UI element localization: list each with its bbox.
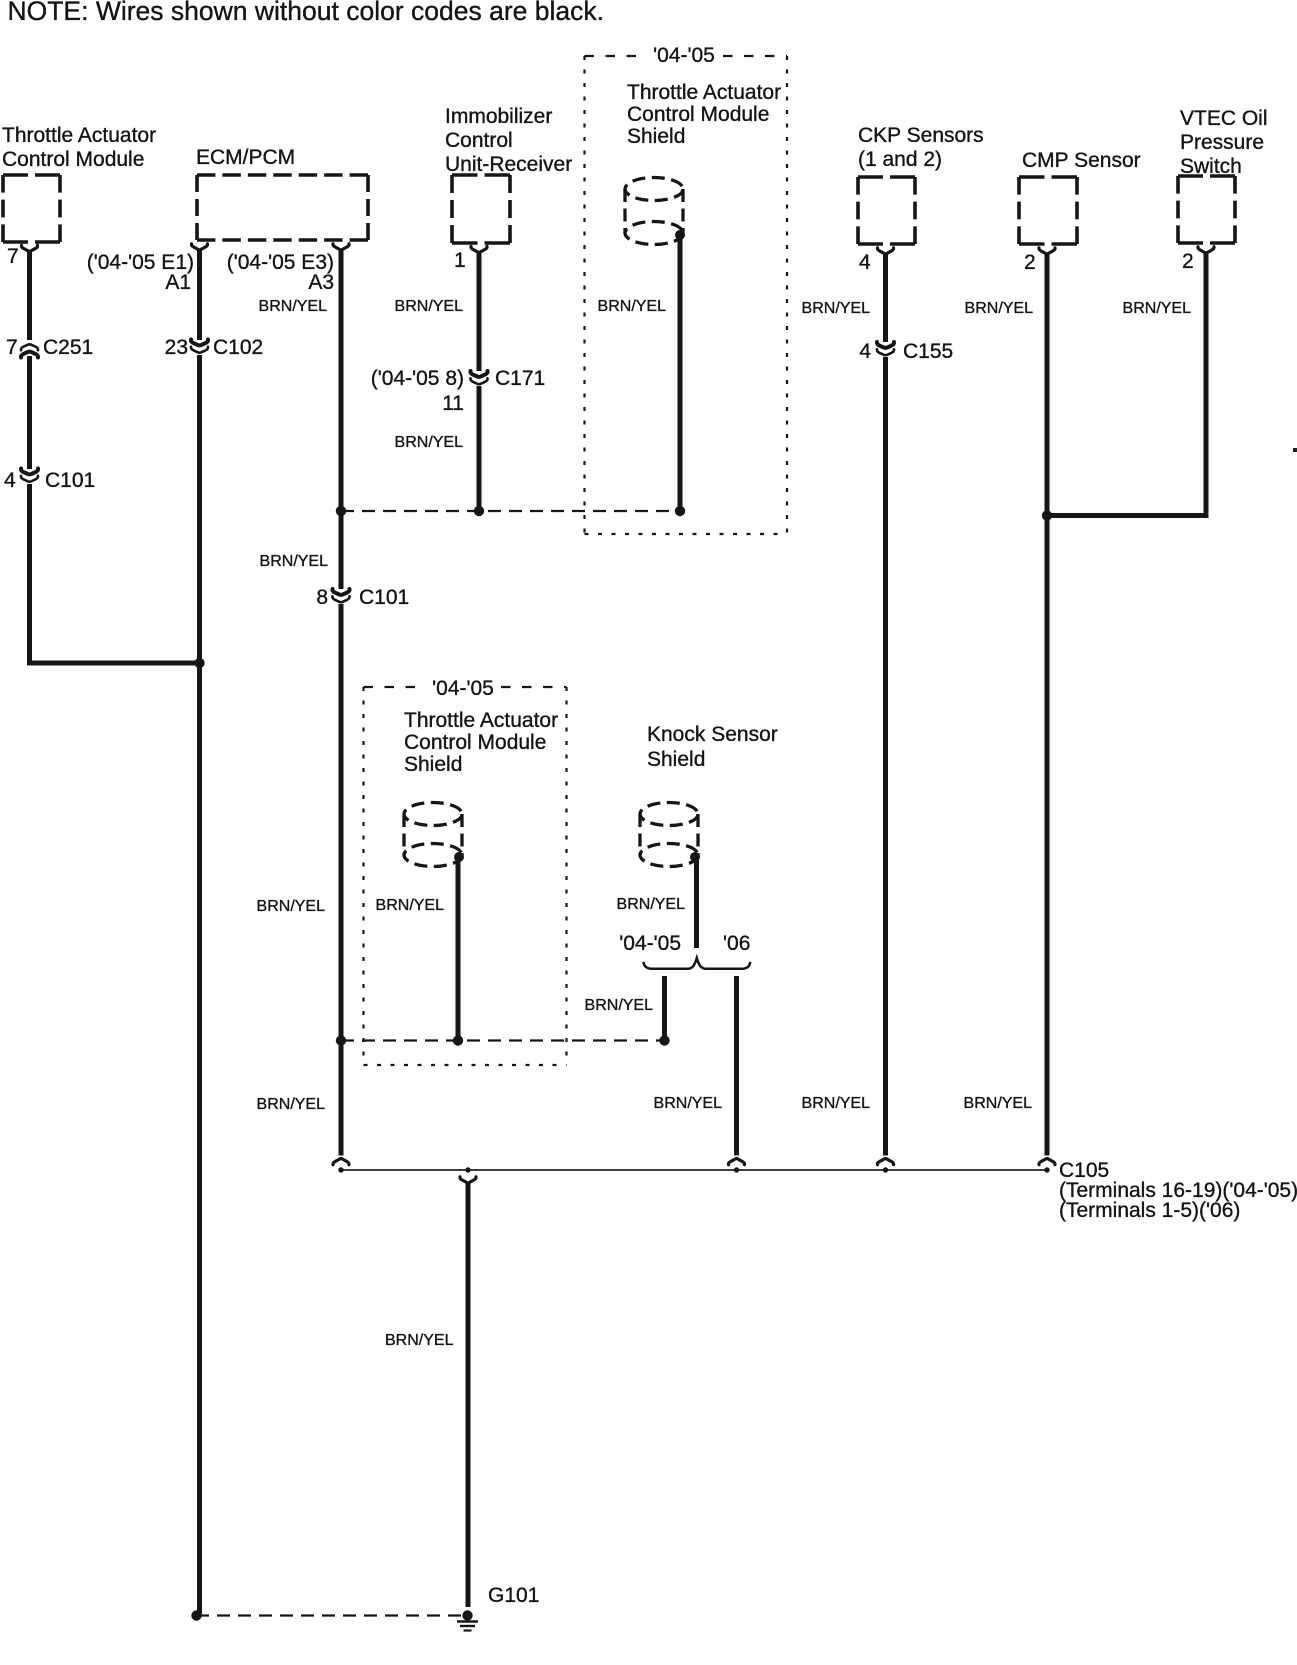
svg-text:4: 4 [859,251,871,274]
svg-text:VTEC Oil: VTEC Oil [1180,107,1268,130]
svg-text:Throttle Actuator: Throttle Actuator [2,124,156,147]
terminal pin 2 at CMP Sensor [1039,248,1055,254]
svg-text:1: 1 [454,249,466,272]
wire C155 down to bus [883,357,888,1156]
brace (knock sensor year split) [644,958,751,969]
svg-text:4: 4 [4,469,16,492]
svg-text:BRN/YEL: BRN/YEL [654,1095,723,1112]
svg-text:7: 7 [7,245,19,268]
svg-text:BRN/YEL: BRN/YEL [964,1095,1033,1112]
junction dot middle shield [453,1035,463,1045]
region box '04-'05 (top) [585,56,788,534]
svg-text:Shield: Shield [647,748,705,771]
svg-text:(1 and 2): (1 and 2) [858,148,942,171]
connector C101 (pin 8) [339,511,344,589]
component Throttle Actuator Control Module Shield (middle) [404,709,558,776]
wire top shield to junction [678,236,683,511]
component Throttle Actuator Control Module Shield (top) [627,81,781,148]
terminal at bus (A3) [333,1159,349,1165]
svg-text:C171: C171 [495,367,545,390]
svg-text:Throttle Actuator: Throttle Actuator [627,81,781,104]
component Throttle Actuator Control Module [2,124,156,242]
svg-text:Unit-Receiver: Unit-Receiver [445,153,572,176]
svg-text:'04-'05: '04-'05 [653,44,715,67]
dashed shield junction wire (middle) [341,1039,665,1041]
dashed shield junction wire (top) [341,510,680,512]
connector label C105 [1059,1159,1297,1222]
svg-text:ECM/PCM: ECM/PCM [196,146,295,169]
component Immobilizer Control Unit-Receiver [445,105,572,243]
svg-text:'04-'05: '04-'05 [619,932,681,955]
terminal at bus (CKP) [877,1159,893,1165]
svg-text:Shield: Shield [404,753,462,776]
connector C101 (pin 4) [21,469,38,482]
svg-text:A1: A1 [165,271,191,294]
svg-text:('04-'05 8): ('04-'05 8) [371,367,464,390]
svg-text:A3: A3 [308,271,334,294]
svg-text:C155: C155 [903,340,953,363]
svg-text:Shield: Shield [627,125,685,148]
svg-text:NOTE: Wires shown without colo: NOTE: Wires shown without color codes ar… [8,0,604,26]
component ECM/PCM [196,146,368,240]
terminal at bus (knock '06) [728,1159,744,1165]
svg-text:Control: Control [445,129,513,152]
junction dot A3/middle shield [336,1035,346,1045]
connector C155 [877,342,894,355]
terminal at bus (CMP) [1039,1159,1055,1165]
wire C251 to C101 [27,356,32,469]
svg-text:CMP Sensor: CMP Sensor [1022,149,1141,172]
svg-text:BRN/YEL: BRN/YEL [598,298,667,315]
bus dot A3 [338,1167,343,1172]
stray mark [1293,448,1297,452]
shield symbol (top Throttle Actuator Control Module Shield) [625,178,683,245]
connector C171 [470,371,487,384]
wire VTEC pin2 down then left to CMP wire [1204,253,1209,516]
wire knock '06 drop to bus [734,976,739,1156]
svg-text:Knock Sensor: Knock Sensor [647,723,778,746]
svg-text:2: 2 [1182,250,1194,273]
svg-text:7: 7 [6,336,18,359]
component CKP Sensors (1 and 2) [858,124,984,244]
component VTEC Oil Pressure Switch [1178,107,1268,243]
svg-text:BRN/YEL: BRN/YEL [260,553,329,570]
terminal below bus (G101 drop) [460,1177,476,1183]
shield symbol (Knock Sensor Shield) [640,803,698,867]
terminal pin 2 at VTEC Oil Pressure Switch [1198,247,1214,253]
dashed ground junction wire (bottom) [196,1614,462,1616]
svg-text:BRN/YEL: BRN/YEL [259,298,328,315]
junction dot immobilizer/shield [474,506,484,516]
svg-text:2: 2 [1024,251,1036,274]
svg-text:BRN/YEL: BRN/YEL [965,300,1034,317]
junction dot A1 at ground line [191,1610,201,1620]
svg-text:Control Module: Control Module [627,103,769,126]
wire knock '04-'05 drop to junction [662,976,667,1041]
svg-text:Control Module: Control Module [404,731,546,754]
wire ECM A3 down to shield junction [339,250,344,511]
terminal E1/A1 at ECM/PCM [191,244,207,250]
svg-text:C101: C101 [359,586,409,609]
bus dot knock '06 [734,1167,739,1172]
junction dot TACM wire joins A1 wire [194,658,204,668]
svg-text:'04-'05: '04-'05 [432,677,494,700]
terminal pin 1 at Immobilizer [471,246,487,252]
svg-text:CKP Sensors: CKP Sensors [858,124,984,147]
wire G101 drop [466,1183,471,1607]
wire TACM pin7 to C251 [27,252,32,340]
svg-text:'06: '06 [723,932,750,955]
svg-text:C101: C101 [45,469,95,492]
terminal pin 4 at CKP Sensors [877,248,893,254]
svg-text:BRN/YEL: BRN/YEL [617,896,686,913]
bus dot CMP [1044,1167,1049,1172]
junction dot knock '04-'05 [659,1035,669,1045]
svg-text:4: 4 [859,340,871,363]
bus wire C105 [339,1169,1047,1171]
wire middle shield down to junction [456,860,461,1041]
terminal pin 7 at Throttle Actuator Control Module [21,245,37,251]
ground G101 [457,1610,478,1630]
terminal E3/A3 at ECM/PCM [333,244,349,250]
svg-text:BRN/YEL: BRN/YEL [802,1095,871,1112]
component Knock Sensor Shield [647,723,778,771]
wire C101 down and right to ECM A1 wire junction [27,484,32,663]
svg-text:Pressure: Pressure [1180,131,1264,154]
wire knock shield to brace [694,860,699,948]
svg-text:BRN/YEL: BRN/YEL [257,898,326,915]
svg-text:8: 8 [316,586,328,609]
svg-text:BRN/YEL: BRN/YEL [802,300,871,317]
svg-text:BRN/YEL: BRN/YEL [585,997,654,1014]
bus dot G101 drop [465,1167,470,1172]
svg-text:BRN/YEL: BRN/YEL [257,1096,326,1113]
bus dot CKP [883,1167,888,1172]
wire ECM A1 to C102 [197,250,202,340]
wire C101-8 down to lower shield junction and bus [339,604,344,1156]
svg-text:C251: C251 [43,336,93,359]
svg-text:23: 23 [165,336,188,359]
region box '04-'05 (middle) [364,687,567,1065]
connector C251 [21,344,38,357]
shield symbol (middle Throttle Actuator Control Module Shield) [404,803,462,867]
junction dot top shield [675,506,685,516]
wire Immobilizer pin1 to C171 [477,253,482,371]
svg-text:BRN/YEL: BRN/YEL [385,1332,454,1349]
svg-text:Immobilizer: Immobilizer [445,105,552,128]
svg-text:Throttle Actuator: Throttle Actuator [404,709,558,732]
svg-text:BRN/YEL: BRN/YEL [376,897,445,914]
wire C102 down to ground dashed line (long) [197,355,202,1614]
svg-text:C102: C102 [213,336,263,359]
svg-text:BRN/YEL: BRN/YEL [395,298,464,315]
junction dot CMP/VTEC [1042,510,1052,520]
svg-text:Control Module: Control Module [2,148,144,171]
svg-text:(Terminals 1-5)('06): (Terminals 1-5)('06) [1059,1199,1240,1222]
wire CMP pin2 down to bus [1045,254,1050,1156]
connector C102 [191,340,208,353]
svg-text:G101: G101 [488,1584,539,1607]
svg-text:BRN/YEL: BRN/YEL [1123,300,1192,317]
wire C171 to shield junction [477,386,482,511]
junction dot A3/shield [336,506,346,516]
wire CKP pin4 to C155 [883,254,888,342]
component CMP Sensor [1019,149,1141,244]
svg-text:BRN/YEL: BRN/YEL [395,434,464,451]
svg-text:11: 11 [442,392,464,415]
